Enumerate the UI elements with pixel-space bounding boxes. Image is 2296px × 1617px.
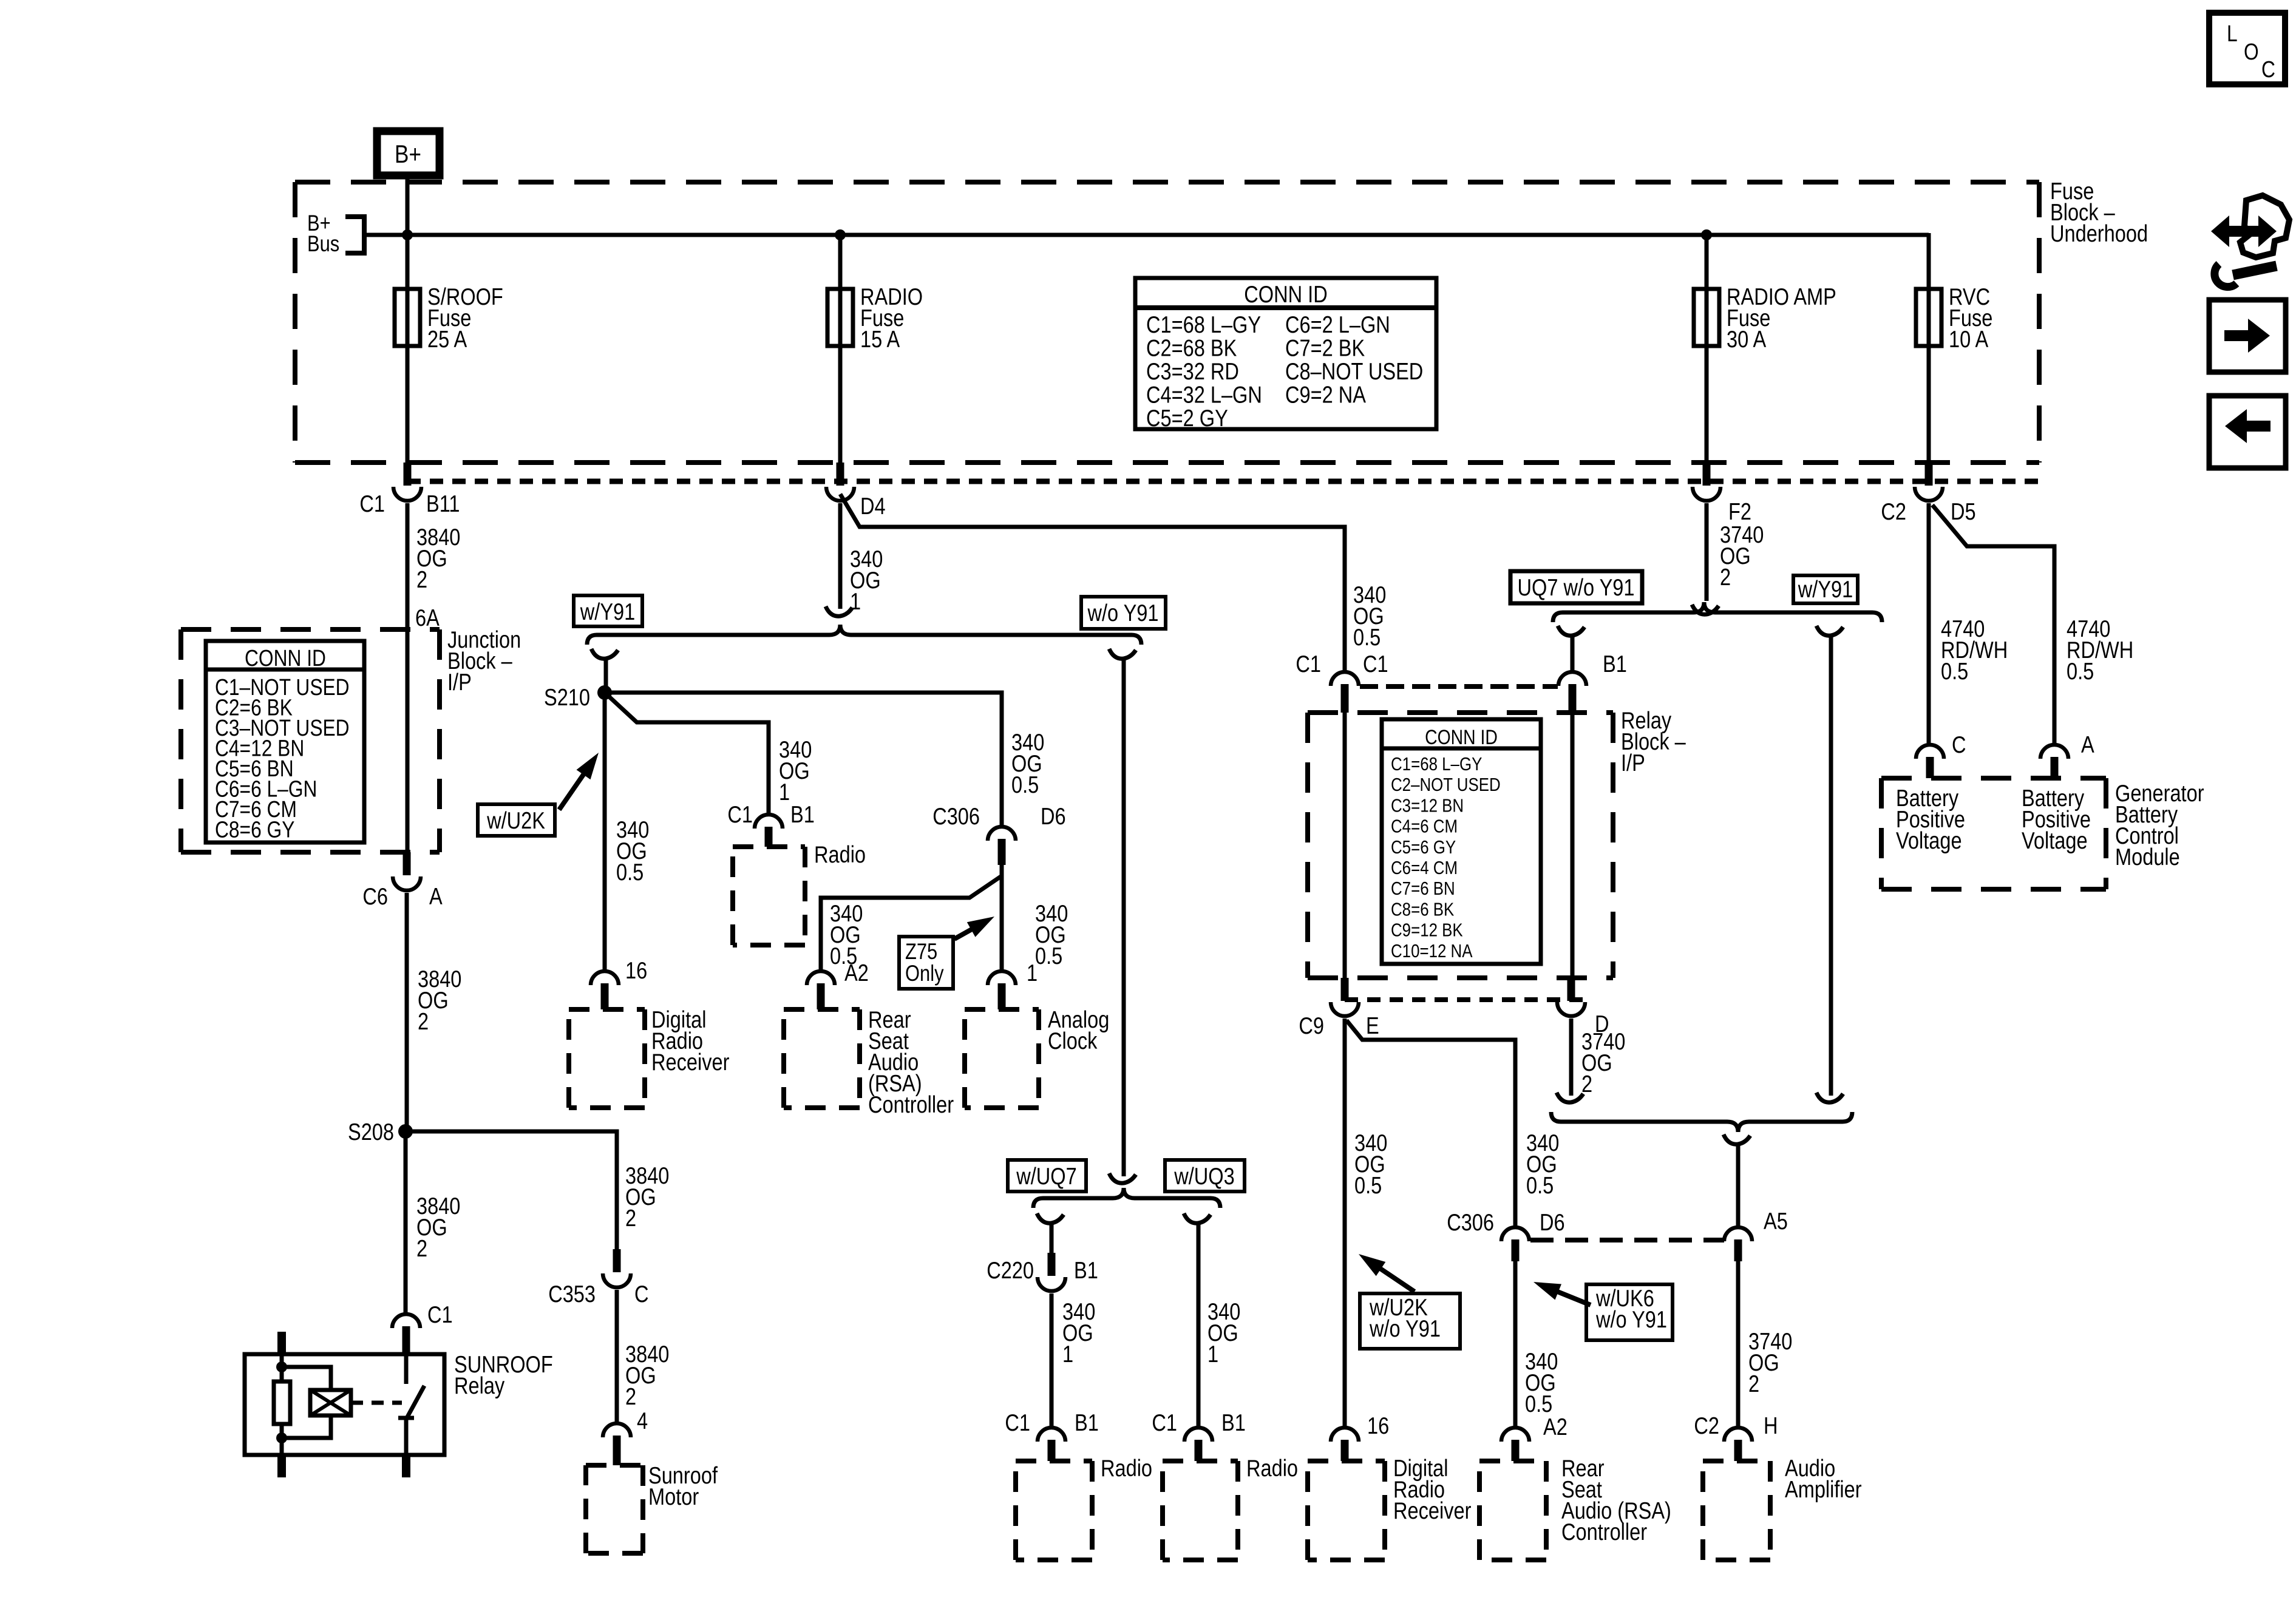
- svg-text:C306: C306: [1447, 1209, 1494, 1236]
- connector C1/B11: [404, 463, 412, 486]
- brace UQ7 w/o Y91 | w/Y91 split: [1553, 602, 1882, 622]
- connector 16 DRR: [591, 971, 619, 985]
- curl F2 wire end: [1692, 605, 1719, 614]
- wire F2 down: [1705, 503, 1709, 601]
- Audio Amplifier box: [1703, 1459, 1770, 1463]
- Generator Battery Control Module dashed box: [1881, 776, 2106, 781]
- svg-text:Underhood: Underhood: [2050, 220, 2148, 247]
- hand with wrench icon: [2211, 215, 2277, 247]
- svg-text:4: 4: [637, 1407, 648, 1434]
- svg-text:C2–NOT USED: C2–NOT USED: [1391, 775, 1501, 796]
- svg-text:C3=12 BN: C3=12 BN: [1391, 795, 1464, 816]
- svg-text:B1: B1: [1221, 1409, 1246, 1436]
- SUNROOF relay box: [245, 1354, 444, 1455]
- svg-text:Voltage: Voltage: [1896, 827, 1962, 854]
- relay switch: [404, 1354, 409, 1384]
- svg-text:CONN ID: CONN ID: [245, 645, 326, 671]
- wire D down: [1569, 1019, 1574, 1096]
- svg-text:w/o Y91: w/o Y91: [1595, 1306, 1667, 1333]
- svg-text:2: 2: [1720, 563, 1731, 591]
- connector C220/B1: [1048, 1253, 1056, 1276]
- connector C9/E: [1341, 978, 1349, 1001]
- brace w/UQ7 | w/UQ3 split: [1033, 1188, 1220, 1208]
- svg-text:2: 2: [1748, 1370, 1759, 1397]
- connector C battery: [1916, 745, 1944, 759]
- svg-text:CONN ID: CONN ID: [1244, 280, 1327, 308]
- connector C306/D6 mid: [988, 827, 1016, 841]
- connector B1 relay block: [1558, 672, 1586, 686]
- wire C9 down to DRR bottom: [1343, 1019, 1347, 1426]
- svg-text:B1: B1: [790, 801, 815, 828]
- option box Z75 Only: [899, 937, 953, 989]
- wire D4 to relay block C1 link: [840, 494, 1345, 671]
- svg-text:C10=12 NA: C10=12 NA: [1391, 941, 1473, 962]
- curl w/Y91 branch top: [1816, 626, 1843, 636]
- svg-text:C1=68 L–GY: C1=68 L–GY: [1391, 754, 1482, 775]
- svg-text:15 A: 15 A: [860, 325, 900, 353]
- svg-text:Relay: Relay: [454, 1372, 504, 1399]
- Analog Clock box: [965, 1007, 1039, 1012]
- fuse RVC 10A symbol: [1927, 291, 1931, 463]
- svg-text:w/o Y91: w/o Y91: [1369, 1315, 1441, 1342]
- wire S208 to C353 branch: [406, 1131, 617, 1249]
- wire D6 to RSA bottom: [1513, 1261, 1518, 1426]
- option box w/U2K w/o Y91: [1360, 1293, 1460, 1349]
- svg-text:w/U2K: w/U2K: [486, 807, 545, 834]
- connector D relay: [1567, 978, 1575, 1001]
- svg-text:C9: C9: [1299, 1012, 1324, 1039]
- relay coil box: [310, 1390, 351, 1415]
- Relay Block - I/P dashed box: [1308, 710, 1613, 715]
- relay actuation dashed link: [351, 1401, 363, 1405]
- wire A5 to audio amp: [1736, 1261, 1741, 1426]
- curl D4 wire end: [826, 606, 852, 616]
- svg-text:w/UQ3: w/UQ3: [1173, 1162, 1234, 1190]
- curl w/Y91 wire end: [1816, 1093, 1843, 1102]
- connector C2/D5: [1925, 463, 1933, 486]
- curl A5 wire top: [1724, 1134, 1750, 1144]
- connector D6 bottom: [1501, 1227, 1529, 1241]
- B+ Bus bracket: [345, 217, 364, 253]
- option box w/o Y91: [1081, 597, 1166, 629]
- svg-text:C1: C1: [359, 490, 385, 517]
- svg-text:C: C: [2261, 56, 2275, 82]
- svg-text:C9=12 BK: C9=12 BK: [1391, 920, 1463, 941]
- connector C1 relay block: [1331, 672, 1359, 686]
- svg-text:C8=6 GY: C8=6 GY: [215, 817, 294, 842]
- svg-text:D5: D5: [1951, 498, 1976, 525]
- svg-text:0.5: 0.5: [1035, 942, 1062, 969]
- svg-text:S210: S210: [544, 683, 590, 711]
- svg-text:H: H: [1764, 1412, 1778, 1439]
- wire C1 through relay block: [1343, 713, 1347, 978]
- option box w/UQ3: [1165, 1160, 1245, 1192]
- svg-text:w/Y91: w/Y91: [1798, 575, 1853, 603]
- connector A2 RSA bottom: [1501, 1428, 1529, 1442]
- svg-text:w/o Y91: w/o Y91: [1087, 599, 1159, 626]
- curl UQ3 branch top: [1184, 1213, 1211, 1223]
- fuse RADIO AMP 30A symbol: [1705, 235, 1709, 463]
- relay junction dots: [276, 1361, 287, 1372]
- svg-text:2: 2: [625, 1204, 636, 1232]
- wire left branch to S210: [604, 658, 608, 693]
- svg-text:30 A: 30 A: [1727, 325, 1766, 353]
- curl left branch top: [591, 649, 618, 659]
- svg-text:I/P: I/P: [447, 668, 472, 696]
- svg-text:C1: C1: [727, 801, 753, 828]
- Sunroof Motor box: [586, 1463, 643, 1468]
- connector C6/A: [403, 852, 411, 875]
- svg-text:C306: C306: [932, 802, 980, 830]
- svg-text:C1: C1: [427, 1301, 453, 1328]
- arrow w/UK6 callout: [1555, 1290, 1591, 1305]
- svg-text:UQ7 w/o Y91: UQ7 w/o Y91: [1518, 574, 1635, 601]
- relay coil loop wire: [282, 1367, 331, 1438]
- connector C2/H audio amp: [1724, 1428, 1752, 1442]
- svg-text:C2: C2: [1694, 1412, 1719, 1439]
- junction dot RADIO AMP tap: [1701, 229, 1712, 240]
- brace w/Y91 | w/o Y91 split: [587, 625, 1141, 645]
- svg-text:Amplifier: Amplifier: [1785, 1476, 1862, 1503]
- svg-text:1: 1: [1207, 1340, 1218, 1368]
- svg-text:C5=6 GY: C5=6 GY: [1391, 837, 1456, 858]
- dotted separator below relay block: [1345, 997, 1584, 1002]
- Digital Radio Receiver box (bottom): [1308, 1459, 1385, 1463]
- wire branch to B1 relay: [1571, 635, 1575, 671]
- wire S210 to radio branch: [605, 693, 769, 813]
- svg-text:D4: D4: [860, 492, 886, 520]
- svg-text:L: L: [2227, 21, 2238, 46]
- connector C353/C: [613, 1249, 621, 1272]
- dashed link D6-A5: [1530, 1238, 1724, 1242]
- svg-text:C: C: [1952, 731, 1966, 758]
- svg-text:Module: Module: [2115, 843, 2180, 870]
- svg-text:16: 16: [1367, 1412, 1389, 1439]
- svg-text:A: A: [2081, 731, 2094, 758]
- svg-text:C7=6 BN: C7=6 BN: [1391, 878, 1455, 900]
- wire C220 to radio1: [1050, 1293, 1054, 1426]
- CONN ID table (fuse block): [1135, 278, 1436, 429]
- option box w/UQ7: [1008, 1160, 1086, 1192]
- wire UQ7 branch to C220: [1050, 1222, 1054, 1253]
- svg-text:0.5: 0.5: [1011, 771, 1039, 798]
- Fuse Block - Underhood dashed outline: [295, 180, 2039, 185]
- svg-text:0.5: 0.5: [616, 858, 644, 886]
- fuse RADIO 15A symbol: [838, 235, 843, 463]
- CONN ID table (junction block): [206, 641, 364, 842]
- svg-text:2: 2: [416, 566, 427, 593]
- wire w/o Y91 long vertical: [1122, 658, 1126, 1176]
- connector D4: [837, 463, 844, 486]
- dotted connector separator line: [407, 479, 2039, 484]
- wire D5 branch to battery A: [1932, 505, 2054, 745]
- svg-text:Clock: Clock: [1048, 1027, 1097, 1054]
- svg-text:C1: C1: [1152, 1409, 1177, 1436]
- back arrow box: [2209, 396, 2286, 468]
- wire B+ to bus: [406, 178, 410, 291]
- wire S208 down to sunroof relay: [404, 1131, 408, 1314]
- svg-text:C5=2 GY: C5=2 GY: [1146, 404, 1228, 432]
- curl UQ7wo branch top: [1558, 626, 1584, 636]
- svg-text:1: 1: [779, 778, 790, 805]
- wire B1 through relay block: [1571, 713, 1575, 978]
- svg-text:2: 2: [625, 1383, 636, 1410]
- svg-text:D6: D6: [1041, 802, 1066, 830]
- svg-text:2: 2: [416, 1235, 427, 1262]
- svg-text:Controller: Controller: [868, 1091, 954, 1118]
- arrow Z75 callout: [954, 928, 974, 939]
- option box w/Y91: [574, 595, 642, 626]
- svg-text:2: 2: [1581, 1070, 1592, 1097]
- curl w/o Y91 wire end: [1109, 1173, 1136, 1183]
- wire D6 to analog clock: [1000, 865, 1004, 970]
- svg-text:C1: C1: [1296, 650, 1321, 677]
- svg-text:w/Y91: w/Y91: [580, 598, 635, 625]
- svg-text:0.5: 0.5: [1354, 1171, 1382, 1199]
- fuse S/ROOF 25A symbol: [406, 235, 410, 463]
- svg-text:O: O: [2244, 39, 2259, 64]
- svg-text:0.5: 0.5: [1526, 1171, 1554, 1199]
- wire C6 to S208: [405, 893, 409, 1131]
- arrow w/U2K callout: [559, 771, 585, 810]
- svg-text:B1: B1: [1075, 1409, 1099, 1436]
- svg-text:A: A: [429, 883, 443, 910]
- relay pin stubs: [277, 1332, 286, 1354]
- svg-text:B+: B+: [395, 140, 421, 169]
- svg-text:2: 2: [418, 1008, 429, 1035]
- svg-text:C353: C353: [548, 1280, 596, 1307]
- svg-text:16: 16: [625, 957, 647, 984]
- page locator LOC box: [2209, 13, 2285, 84]
- curl D wire end: [1557, 1093, 1583, 1102]
- Radio box (upper): [733, 844, 805, 849]
- connector C1/B1 radio1: [1038, 1428, 1065, 1442]
- wire merge to A5: [1736, 1144, 1741, 1226]
- option box w/Y91 (relay): [1793, 575, 1858, 603]
- svg-text:Receiver: Receiver: [651, 1048, 729, 1076]
- svg-text:C6: C6: [362, 883, 388, 910]
- svg-text:10 A: 10 A: [1949, 325, 1988, 353]
- svg-text:w/UQ7: w/UQ7: [1016, 1162, 1076, 1190]
- svg-text:C1: C1: [1005, 1409, 1030, 1436]
- svg-text:C: C: [634, 1280, 649, 1307]
- wire D4 down to option brace: [838, 503, 843, 609]
- svg-text:CONN ID: CONN ID: [1425, 726, 1498, 749]
- option box UQ7 w/o Y91: [1510, 571, 1642, 603]
- svg-text:D6: D6: [1540, 1209, 1565, 1236]
- svg-text:I/P: I/P: [1621, 749, 1645, 776]
- svg-text:1: 1: [1062, 1340, 1073, 1368]
- Radio box (bottom 2): [1163, 1459, 1238, 1463]
- wire 3840 below C1/B11: [406, 503, 410, 629]
- svg-text:Motor: Motor: [648, 1483, 699, 1510]
- connector 16 DRR bottom: [1331, 1428, 1359, 1442]
- B+ power feed box: [377, 131, 440, 175]
- wire C353 to sunroof motor: [615, 1290, 619, 1423]
- junction dot RADIO tap: [835, 229, 846, 240]
- svg-text:C6=4 CM: C6=4 CM: [1391, 858, 1458, 879]
- svg-text:Radio: Radio: [814, 841, 866, 868]
- svg-text:1: 1: [1027, 959, 1038, 986]
- svg-text:Radio: Radio: [1246, 1454, 1298, 1482]
- svg-text:0.5: 0.5: [2067, 657, 2094, 685]
- Radio box (bottom 1): [1016, 1459, 1092, 1463]
- wire bus corner to RVC fuse: [1927, 233, 1931, 291]
- junction dot S/ROOF tap: [402, 229, 413, 240]
- svg-text:Radio: Radio: [1101, 1454, 1152, 1482]
- svg-text:B11: B11: [426, 490, 460, 517]
- connector A battery: [2040, 745, 2068, 759]
- svg-text:C2: C2: [1881, 498, 1906, 525]
- svg-text:C8=6 BK: C8=6 BK: [1391, 899, 1454, 920]
- connector F2: [1703, 463, 1711, 486]
- wire D6 split to RSA: [821, 876, 1002, 970]
- junction S208: [398, 1124, 413, 1139]
- svg-text:C9=2 NA: C9=2 NA: [1285, 381, 1366, 408]
- Junction Block - I/P dashed box: [181, 627, 440, 632]
- option box w/U2K: [478, 804, 555, 836]
- svg-text:C220: C220: [987, 1256, 1034, 1284]
- Rear Seat Audio box (mid): [784, 1007, 860, 1012]
- wire UQ3 branch to radio2: [1197, 1222, 1201, 1426]
- svg-text:C4=6 CM: C4=6 CM: [1391, 816, 1458, 837]
- connector 1 analog clock: [988, 971, 1016, 985]
- svg-text:C1: C1: [1363, 650, 1388, 677]
- svg-text:Receiver: Receiver: [1393, 1497, 1471, 1524]
- svg-text:S208: S208: [348, 1118, 394, 1145]
- junction S210: [597, 685, 612, 700]
- connector A2 RSA mid: [807, 971, 835, 985]
- wire w/Y91 relay branch down: [1829, 635, 1833, 1096]
- svg-text:0.5: 0.5: [1353, 623, 1381, 651]
- svg-text:0.5: 0.5: [1941, 657, 1968, 685]
- wire S210 top to C306 branch: [605, 693, 1002, 825]
- dashed link C1-B1 connectors: [1360, 684, 1558, 689]
- wire C9/E branch to C306 D6: [1347, 1020, 1515, 1226]
- Rear Seat Audio box (bottom): [1479, 1459, 1546, 1463]
- svg-text:A2: A2: [1543, 1413, 1567, 1440]
- connector A5: [1724, 1227, 1752, 1241]
- wire S210 down to digital radio receiver: [603, 693, 607, 970]
- svg-text:25 A: 25 A: [427, 325, 467, 353]
- arrow w/U2K w/o Y91 callout: [1378, 1267, 1415, 1292]
- B+ bus wire: [364, 233, 1929, 237]
- brace merge to A5: [1551, 1112, 1852, 1132]
- svg-text:B1: B1: [1603, 650, 1627, 677]
- connector pin 4 sunroof motor: [603, 1423, 631, 1437]
- connector C1/B1 radio2: [1184, 1428, 1212, 1442]
- forward arrow box: [2209, 300, 2286, 372]
- connector C1/B1 radio upper: [755, 815, 783, 829]
- svg-text:Voltage: Voltage: [2022, 827, 2088, 854]
- svg-text:B1: B1: [1074, 1256, 1098, 1284]
- option box w/UK6 w/o Y91: [1586, 1284, 1673, 1340]
- Digital Radio Receiver box (mid): [569, 1007, 645, 1012]
- svg-text:A2: A2: [844, 959, 869, 986]
- wire through junction block: [406, 629, 410, 852]
- relay left pin wire: [280, 1354, 284, 1455]
- CONN ID table (relay block): [1382, 719, 1541, 964]
- svg-text:Controller: Controller: [1561, 1518, 1647, 1545]
- svg-text:E: E: [1366, 1012, 1379, 1039]
- svg-text:Bus: Bus: [307, 231, 339, 256]
- relay resistor: [274, 1381, 290, 1424]
- svg-text:Only: Only: [905, 961, 944, 986]
- connector C1 sunroof relay: [392, 1314, 420, 1328]
- svg-text:A5: A5: [1764, 1207, 1788, 1235]
- curl UQ7 branch top: [1037, 1213, 1064, 1223]
- wire C2 down to battery C: [1927, 503, 1931, 745]
- curl w/o Y91 branch top: [1109, 649, 1136, 659]
